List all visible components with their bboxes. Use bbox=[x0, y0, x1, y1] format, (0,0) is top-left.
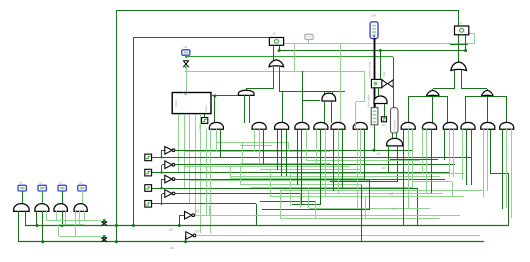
register REG1 bbox=[172, 93, 211, 114]
not gate N3 bbox=[165, 175, 172, 183]
wire row3 cont bbox=[162, 188, 418, 190]
input pin Out 4-bit bbox=[370, 22, 378, 39]
svg-text:d1: d1 bbox=[459, 21, 463, 25]
svg-text:Counter Value: Counter Value bbox=[367, 61, 371, 79]
svg-text:a1: a1 bbox=[377, 152, 381, 156]
wire A2 in-left bbox=[324, 101, 326, 123]
comparator bowtie bbox=[382, 80, 393, 88]
wire net-top vertical bbox=[116, 10, 118, 242]
wire N2 in bbox=[162, 164, 165, 166]
and gate H2 bbox=[35, 204, 49, 212]
wire gate input bbox=[263, 129, 265, 165]
wire pin in3 bbox=[82, 191, 84, 204]
wire A2 stub-right bbox=[332, 92, 334, 94]
svg-text:Max Value: Max Value bbox=[367, 94, 371, 107]
wire pin clk down bbox=[186, 55, 188, 58]
and gate G11 bbox=[461, 122, 475, 129]
wire y88.6 right bbox=[461, 88, 487, 90]
wire mesh vertical bbox=[365, 197, 367, 218]
wire pale x294.2 bbox=[294, 44, 296, 71]
wire gate input bbox=[412, 129, 414, 188]
wire U3 to OR1 bbox=[273, 46, 275, 60]
wire rail1 bbox=[25, 225, 509, 227]
wire gate H input bbox=[18, 211, 20, 242]
wire y91.5 A1-A2 bbox=[279, 91, 345, 93]
wire dark y204.5 seg bbox=[292, 204, 321, 206]
wire dark x369.5 bbox=[369, 179, 371, 209]
wire gate input bbox=[220, 129, 222, 157]
wire C1 out bbox=[152, 157, 162, 159]
and gate G10 bbox=[443, 122, 457, 129]
clock C4 bbox=[145, 201, 152, 208]
wire U4 br stub bbox=[465, 35, 467, 50]
svg-text:in1: in1 bbox=[39, 180, 43, 184]
wire gate input bbox=[502, 129, 504, 209]
wire G13 out up bbox=[506, 96, 508, 122]
wire U4 to OR3 bbox=[458, 35, 460, 62]
wire into U4 top bbox=[458, 10, 460, 26]
wire pin in2 bbox=[62, 191, 64, 204]
wire G12 leg down bbox=[490, 129, 492, 174]
wire gate input bbox=[357, 129, 359, 208]
clock C5 bbox=[381, 117, 386, 122]
wire mesh y180.9 bbox=[190, 180, 370, 182]
wire gate input bbox=[462, 129, 464, 180]
wire G8 to OR4 base bbox=[408, 96, 447, 98]
wire N5 in h bbox=[179, 215, 185, 217]
wire B3 to register bbox=[186, 66, 188, 92]
junction bbox=[160, 172, 162, 174]
wire dark y101 bbox=[302, 100, 320, 102]
and gate A2 bbox=[322, 93, 336, 101]
wire OR4 in-left bbox=[432, 96, 434, 123]
junction bbox=[61, 224, 64, 227]
wire rail2 bbox=[19, 241, 484, 243]
wire jog N4 bbox=[161, 194, 163, 204]
input pin in1 bbox=[38, 185, 46, 191]
wire U5 to A3 bbox=[378, 88, 380, 96]
wire pale y224 bbox=[59, 224, 84, 226]
wire pale y220.3 bbox=[46, 220, 101, 222]
and gate A3 bbox=[374, 96, 387, 104]
wire RR pin-left bbox=[392, 133, 394, 139]
wire OR1 in-left bbox=[273, 67, 275, 89]
decoder RoundRobin bbox=[391, 108, 399, 133]
svg-text:in2: in2 bbox=[59, 180, 63, 184]
junction bbox=[185, 56, 187, 58]
wire drop x361.9 bbox=[361, 185, 363, 242]
wire A2 in-right bbox=[331, 101, 333, 123]
wire dark y44.2 seg bbox=[450, 44, 468, 46]
junction bbox=[213, 94, 216, 97]
or gate OR5 bbox=[481, 90, 493, 96]
wire OR4 out stub bbox=[432, 89, 434, 91]
wire A2 stub-left bbox=[324, 92, 326, 94]
wire gate H input bbox=[42, 211, 44, 242]
wire gate input bbox=[431, 129, 433, 193]
probe P1 bbox=[305, 34, 313, 39]
wire OR5 in-right bbox=[487, 96, 489, 123]
wire mesh y187.7 bbox=[250, 187, 412, 189]
wire gate input bbox=[444, 129, 446, 160]
wire gate input bbox=[408, 129, 410, 208]
wire N4 in bbox=[162, 193, 165, 195]
wire register drop bbox=[214, 97, 216, 123]
wire mesh vertical bbox=[240, 163, 242, 185]
svg-text:(clk): (clk) bbox=[382, 72, 386, 77]
svg-text:in3: in3 bbox=[79, 180, 83, 184]
wire N5 out bbox=[195, 215, 460, 217]
wire gate input bbox=[360, 129, 362, 174]
wire U4 right light bbox=[469, 33, 475, 35]
junction bbox=[278, 49, 281, 52]
and gate G7 bbox=[353, 122, 367, 129]
wire gate input bbox=[449, 129, 451, 177]
wire mesh y184.8 bbox=[240, 184, 362, 186]
wire mesh y173.5 bbox=[290, 173, 422, 175]
wire row2 cont bbox=[162, 172, 450, 174]
wire jog N1 bbox=[161, 150, 163, 157]
wire mesh y178.6 bbox=[230, 178, 364, 180]
wire OR3 in-right bbox=[461, 70, 463, 89]
wire gate input bbox=[320, 129, 322, 204]
probe U3 bbox=[269, 38, 283, 46]
wire mesh vertical bbox=[280, 191, 282, 218]
svg-text:a4: a4 bbox=[382, 166, 386, 170]
wire gate input bbox=[210, 129, 212, 233]
clock C3 bbox=[145, 185, 152, 192]
svg-text:RoundRobin: RoundRobin bbox=[393, 119, 396, 134]
wire A3 in-left bbox=[375, 104, 377, 108]
wire pale x58.6 bbox=[58, 224, 60, 236]
junction bbox=[115, 240, 118, 243]
wire mesh y151.8 bbox=[184, 151, 330, 153]
svg-text:a2: a2 bbox=[195, 209, 200, 213]
wire gate input bbox=[403, 129, 405, 226]
wire gate input bbox=[342, 129, 344, 188]
clock C0 bbox=[202, 118, 208, 124]
wire N6 out bbox=[196, 235, 480, 237]
wire clk net y56.6 bbox=[186, 56, 393, 58]
wire OR2 leg-right bbox=[397, 146, 399, 181]
wire pale x209 bbox=[209, 206, 211, 215]
wire U3 br stub bbox=[279, 46, 281, 50]
wire C4 out bbox=[152, 203, 162, 205]
wire RR pin-right bbox=[396, 133, 398, 139]
wire gate H input bbox=[25, 211, 27, 226]
wire gate input bbox=[511, 129, 513, 218]
junction bbox=[160, 156, 162, 158]
register clk mark bbox=[184, 93, 188, 95]
and gate H1 bbox=[14, 204, 29, 212]
wire probe stub bbox=[308, 39, 310, 44]
wire jog y173.5 bbox=[491, 173, 509, 175]
wire mesh y176.2 bbox=[230, 176, 440, 178]
wire light y101.9 bbox=[356, 101, 364, 103]
clock buffer B2 bbox=[103, 235, 106, 238]
wire OR1 in-right bbox=[279, 67, 281, 92]
wire C2 out bbox=[152, 172, 162, 174]
wire gate input bbox=[364, 129, 366, 179]
clock buffer B1 bbox=[103, 219, 106, 222]
svg-text:Data: Data bbox=[174, 100, 178, 107]
wire mesh y190.8 bbox=[280, 190, 484, 192]
wire jog N2 bbox=[161, 165, 163, 173]
wire bowtie to RoundRobin bbox=[393, 87, 395, 108]
wire N6 in bbox=[185, 236, 187, 242]
wire gate input bbox=[259, 129, 261, 163]
wire y173.2 bbox=[413, 173, 464, 175]
junction bbox=[36, 224, 39, 227]
wire comparator clk drop bbox=[380, 50, 382, 79]
junction bbox=[185, 70, 187, 72]
wire mesh vertical bbox=[290, 174, 292, 206]
input pin in3 bbox=[78, 185, 86, 191]
clock C2 bbox=[145, 169, 152, 176]
and gate G12 bbox=[481, 122, 495, 129]
wire A1 in-right bbox=[249, 95, 251, 123]
wire OR5 out stub bbox=[487, 89, 489, 91]
wire mesh y218.2 bbox=[280, 218, 440, 220]
wire gate input bbox=[453, 129, 455, 177]
wire y88.6 left bbox=[433, 88, 454, 90]
comparator U5 bbox=[371, 79, 382, 87]
or gate OR3 bbox=[451, 62, 467, 71]
clock C1 bbox=[145, 154, 152, 161]
junction bbox=[132, 224, 135, 227]
wire gate input bbox=[422, 129, 424, 174]
wire light x364 drop bbox=[364, 71, 366, 102]
wire A1 in-left bbox=[244, 95, 246, 123]
probe U4 bbox=[455, 26, 469, 35]
register bit outputs bbox=[178, 114, 180, 173]
wire drop x508.6 bbox=[508, 174, 510, 226]
wire gate input bbox=[466, 129, 468, 185]
wire pin in0 bbox=[22, 191, 24, 204]
wire dark x302.5 bbox=[302, 71, 304, 122]
wire N3 out bbox=[175, 179, 445, 181]
wire gate H input bbox=[56, 211, 58, 220]
wire OR3 in-left bbox=[454, 70, 456, 89]
wire mesh y169.7 bbox=[260, 169, 360, 171]
wire register out bbox=[211, 95, 215, 97]
wire N2 out bbox=[175, 164, 455, 166]
wire mesh y196.9 bbox=[270, 196, 464, 198]
and gate G2 bbox=[252, 122, 266, 129]
wire pin in1 bbox=[42, 191, 44, 204]
wire row1 up G11 bbox=[471, 129, 473, 157]
svg-text:d0: d0 bbox=[273, 32, 277, 36]
wire U3 out light bbox=[284, 43, 475, 45]
wire gate input bbox=[281, 129, 283, 176]
junction bbox=[464, 49, 467, 52]
wire gate input bbox=[286, 129, 288, 176]
junction bbox=[41, 240, 44, 243]
and gate G9 bbox=[423, 122, 437, 129]
wire gate input bbox=[301, 129, 303, 204]
wire mesh y209.4 bbox=[262, 209, 370, 211]
wire N4 out bbox=[175, 193, 426, 195]
or gate OR2 bbox=[387, 138, 403, 146]
wire N1 in bbox=[162, 150, 165, 152]
wire gate input bbox=[471, 129, 473, 185]
junction bbox=[373, 149, 376, 152]
wire y159.8 bbox=[390, 159, 438, 161]
and gate G3 bbox=[275, 122, 289, 129]
junction bbox=[115, 224, 118, 227]
wire register clock stub bbox=[204, 114, 206, 118]
svg-text:a2: a2 bbox=[169, 228, 174, 232]
and gate A1 bbox=[238, 90, 254, 95]
wire gate input bbox=[355, 123, 357, 129]
wire bus from pin Out bbox=[374, 38, 376, 108]
wire mesh vertical bbox=[300, 193, 302, 208]
wire gate H input bbox=[84, 211, 86, 220]
wire OR4 in-right bbox=[447, 96, 449, 123]
and gate G5 bbox=[314, 122, 328, 129]
wire mesh y166.9 bbox=[184, 166, 350, 168]
and gate G1 bbox=[209, 122, 223, 129]
wire gate H input bbox=[65, 211, 67, 224]
wire gate H input bbox=[46, 211, 48, 220]
wire drop x417.9 bbox=[417, 188, 419, 226]
wire pale y236.3 bbox=[59, 236, 101, 238]
wire pale x452.4 bbox=[452, 182, 454, 197]
wire pale y142.4 bbox=[216, 142, 289, 144]
wire gate input bbox=[316, 129, 318, 163]
wire comparator right drop bbox=[393, 57, 395, 80]
junction bbox=[178, 224, 181, 227]
wire mesh vertical bbox=[270, 170, 272, 197]
not gate N5 bbox=[185, 211, 192, 219]
wire MaxValue down bbox=[374, 125, 376, 150]
wire G8 out up bbox=[408, 96, 410, 122]
input pin clk bbox=[182, 50, 190, 55]
and gate H3 bbox=[54, 204, 67, 212]
wire C3 out bbox=[152, 188, 162, 190]
and gate G6 bbox=[331, 122, 345, 129]
wire G13 to OR5 base bbox=[466, 96, 507, 98]
wire gate input bbox=[206, 129, 208, 215]
input pin in2 bbox=[58, 185, 66, 191]
wire gate input bbox=[306, 129, 308, 161]
wire pale y145.5 bbox=[240, 145, 272, 147]
and gate G4 bbox=[295, 122, 309, 129]
wire mesh vertical bbox=[308, 188, 310, 208]
constant MaxValue bbox=[371, 108, 378, 125]
wire gate input bbox=[338, 129, 340, 193]
wire pale y181.7 bbox=[413, 181, 452, 183]
wire G3 up bbox=[282, 92, 284, 122]
junction bbox=[160, 187, 162, 189]
wire net-top horizontal bbox=[116, 10, 458, 12]
svg-text:Out: Out bbox=[371, 14, 376, 18]
wire gate input bbox=[277, 129, 279, 170]
and gate G13 bbox=[500, 122, 514, 129]
wire light y71.3 bbox=[186, 71, 364, 73]
wire gate H input bbox=[79, 211, 81, 224]
svg-text:Out: Out bbox=[382, 123, 387, 127]
wire mesh vertical bbox=[230, 163, 232, 179]
wire gate input bbox=[483, 129, 485, 197]
wire N3 in bbox=[162, 179, 165, 181]
wire register to A1 bbox=[211, 95, 238, 97]
wire mesh y201.2 bbox=[260, 201, 315, 203]
not gate N1 bbox=[165, 147, 172, 155]
wire net2 horizontal bbox=[133, 37, 269, 39]
wire OR2 leg-left bbox=[388, 146, 390, 172]
wire mesh vertical bbox=[315, 201, 317, 218]
wire gate input bbox=[297, 129, 299, 185]
wire gate input bbox=[426, 129, 428, 193]
wire gate input bbox=[506, 129, 508, 208]
wire A1 out stub bbox=[246, 89, 248, 91]
or gate OR1 bbox=[269, 60, 284, 67]
junction bbox=[160, 203, 162, 205]
and gate H4 bbox=[74, 204, 87, 212]
wire N5 in bbox=[179, 215, 181, 226]
wire mesh y163.3 bbox=[240, 163, 330, 165]
or gate OR4 bbox=[426, 90, 439, 96]
wire light x355.6 bbox=[355, 102, 357, 123]
wire mesh y160.6 bbox=[306, 160, 420, 162]
svg-text:Save: Save bbox=[204, 105, 208, 112]
wire jog N3 bbox=[161, 179, 163, 188]
not gate N4 bbox=[165, 190, 172, 198]
svg-text:a3: a3 bbox=[170, 246, 175, 250]
junction bbox=[184, 240, 187, 243]
svg-text:clk: clk bbox=[184, 45, 188, 49]
wire gate input bbox=[325, 129, 327, 197]
wire light corner bbox=[474, 33, 476, 44]
wire N1 out bbox=[175, 150, 412, 152]
wire gate input bbox=[254, 129, 256, 152]
not gate N2 bbox=[165, 161, 172, 169]
wire OR5 in-left bbox=[465, 96, 467, 123]
svg-text:in0: in0 bbox=[19, 180, 23, 184]
wire mesh y208.2 bbox=[309, 208, 430, 210]
wire drop x256.2 bbox=[256, 204, 258, 226]
wire A1 to OR1 bbox=[246, 88, 273, 90]
clock buffer B3 bbox=[183, 61, 189, 67]
junction bbox=[379, 49, 382, 52]
wire net2 vertical bbox=[133, 38, 135, 226]
wire gate H input bbox=[62, 211, 64, 226]
wire A3 to C5 bbox=[384, 104, 386, 117]
wire gate H input bbox=[75, 211, 77, 236]
wire mesh y181.3 bbox=[330, 181, 398, 183]
and gate G8 bbox=[401, 122, 415, 129]
wire row1 cont bbox=[162, 157, 472, 159]
wire row4 cont bbox=[162, 203, 256, 205]
wire pale x288.9 bbox=[288, 142, 290, 152]
wire gate input bbox=[333, 129, 335, 191]
svg-text:a3: a3 bbox=[195, 229, 200, 233]
not gate N6 bbox=[186, 232, 193, 240]
wire pale x242.4 bbox=[242, 142, 244, 163]
input pin in0 bbox=[18, 185, 26, 191]
wire mesh y193.2 bbox=[300, 193, 443, 195]
wire gate H input bbox=[36, 211, 38, 226]
wire net y50 bbox=[279, 50, 466, 52]
wire pale x340 bbox=[340, 44, 342, 122]
wire gate input bbox=[487, 129, 489, 191]
wire gate input bbox=[216, 129, 218, 152]
